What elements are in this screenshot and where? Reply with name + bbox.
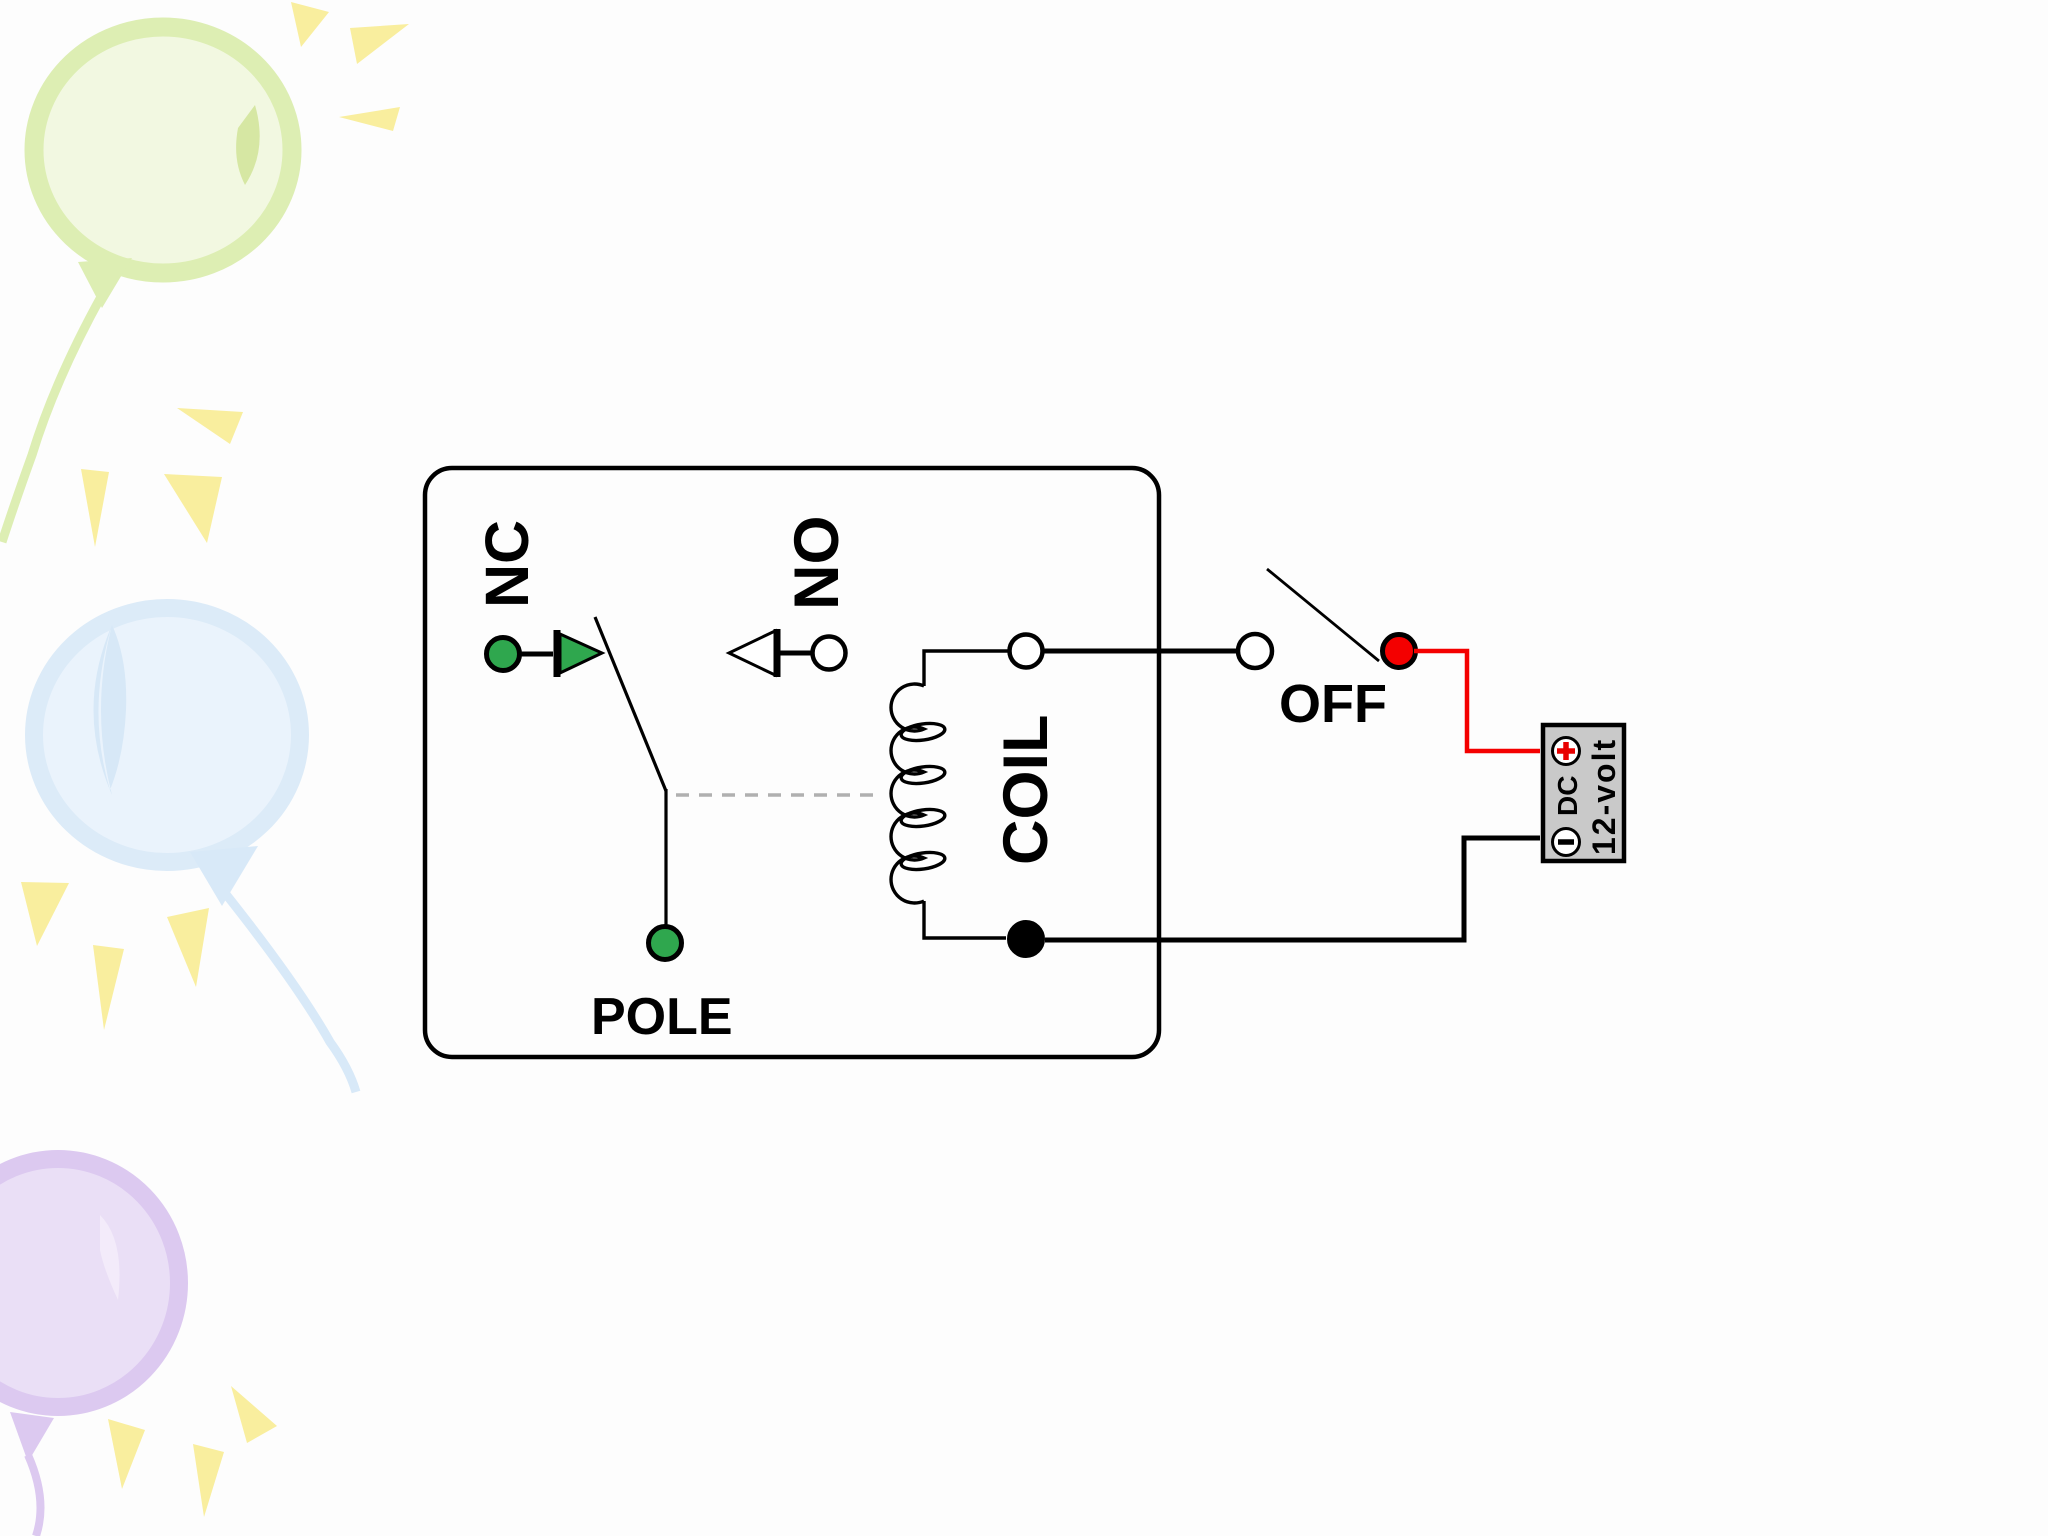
relay box	[425, 468, 1159, 1057]
NO terminal	[813, 637, 846, 670]
pole arm vertical wire	[664, 789, 667, 927]
decorative yellow sparkles (top)	[81, 2, 409, 547]
coil L1	[891, 651, 1009, 938]
coil bottom junction dot	[1009, 922, 1043, 956]
decorative yellow sparkles (bottom)	[108, 1386, 277, 1517]
wire NO stub	[780, 651, 812, 656]
svg-text:OFF: OFF	[1279, 674, 1387, 734]
svg-text:NC: NC	[473, 520, 541, 608]
battery negative terminal	[1553, 829, 1580, 856]
battery positive terminal	[1553, 738, 1580, 765]
svg-text:NO: NO	[782, 516, 852, 611]
decorative purple balloon	[0, 1159, 179, 1536]
NO contact arrow	[729, 629, 777, 677]
switch lever	[1267, 569, 1379, 661]
dashed actuation link	[676, 793, 878, 797]
svg-text:12-volt: 12-volt	[1586, 738, 1622, 855]
wire NC stub	[520, 652, 553, 657]
wire coil to switch	[1043, 649, 1236, 654]
switch red terminal	[1383, 635, 1416, 668]
decorative green balloon	[2, 27, 292, 542]
svg-text:COIL: COIL	[991, 715, 1061, 866]
pole lever	[595, 617, 666, 791]
wire negative return	[1045, 838, 1540, 940]
decorative yellow sparkles (middle)	[21, 882, 209, 1030]
decorative blue balloon	[34, 608, 356, 1092]
svg-text:POLE: POLE	[591, 988, 733, 1046]
coil top terminal	[1010, 635, 1043, 668]
switch terminal	[1238, 634, 1272, 668]
NC contact green terminal	[487, 638, 520, 671]
svg-text:DC: DC	[1552, 776, 1583, 816]
wire red positive	[1414, 651, 1540, 751]
pole green terminal	[649, 927, 682, 960]
battery body	[1543, 725, 1624, 861]
NC arrow	[557, 630, 602, 677]
